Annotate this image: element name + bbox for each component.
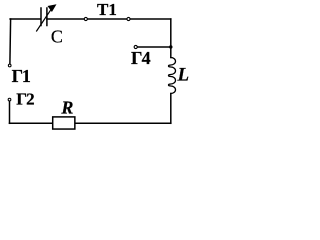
wire top-left horizontal [10,18,40,20]
wire right vertical upper [170,19,172,58]
wire bottom right horizontal [75,122,171,124]
resistor R body [53,117,75,129]
wire bottom left horizontal [10,122,53,124]
capacitor C1 right plate [46,8,48,26]
terminal G4 circle [134,45,137,48]
terminal T1 left circle [84,17,87,20]
svg-text:Г4: Г4 [131,48,151,68]
wire left vertical [9,19,12,64]
svg-text:L: L [177,65,190,86]
wire between T1 terminals [88,18,126,20]
svg-text:T1: T1 [97,0,117,19]
svg-text:Г2: Г2 [16,89,34,108]
terminal T1 right circle [127,17,130,20]
inductor L coil [168,58,175,94]
terminal G1 circle [8,64,11,67]
svg-text:C: C [51,27,63,47]
terminal G2 circle [8,98,11,101]
wire terminal G4 branch [138,46,171,48]
capacitor variable arrow [37,9,52,31]
svg-text:Г1: Г1 [12,66,31,86]
wire T1 right terminal to top-right corner [131,18,171,20]
capacitor arrow head [48,4,57,12]
capacitor C1 left plate [40,8,42,26]
wire right vertical lower [170,94,172,124]
wire capacitor to T1 left terminal [47,18,84,20]
wire G2 stub vertical [9,101,11,123]
svg-text:R: R [60,97,73,117]
junction node dot [169,45,172,48]
